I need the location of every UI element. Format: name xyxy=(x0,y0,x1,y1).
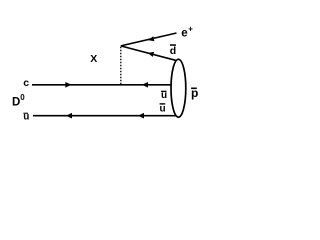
arrow on spectator line left segment pointing left xyxy=(66,113,72,119)
svg-text:c: c xyxy=(23,77,29,89)
svg-text:0: 0 xyxy=(20,93,25,102)
svg-text:d: d xyxy=(170,45,176,57)
svg-text:+: + xyxy=(188,25,193,34)
arrow on e+ line pointing toward vertex xyxy=(148,36,154,41)
svg-text:e: e xyxy=(181,28,187,40)
svg-text:X: X xyxy=(90,53,97,65)
antiproton blob ellipse xyxy=(171,59,186,117)
d-bar quark line from vertex to antiproton xyxy=(121,46,178,61)
X boson dotted propagator xyxy=(120,47,122,85)
arrow on spectator line right segment pointing left xyxy=(138,113,144,119)
svg-text:D: D xyxy=(12,97,20,109)
arrow on c quark line pointing right xyxy=(65,82,71,88)
wire: c quark line (upper D0 line) xyxy=(32,84,175,86)
arrow on u-bar line after X vertex pointing left xyxy=(142,82,148,88)
svg-text:u: u xyxy=(160,104,166,115)
arrow on d-bar line pointing toward vertex xyxy=(148,52,155,57)
e+ positron line xyxy=(121,33,177,46)
wire: u-bar spectator line (lower D0 line) xyxy=(33,115,176,117)
